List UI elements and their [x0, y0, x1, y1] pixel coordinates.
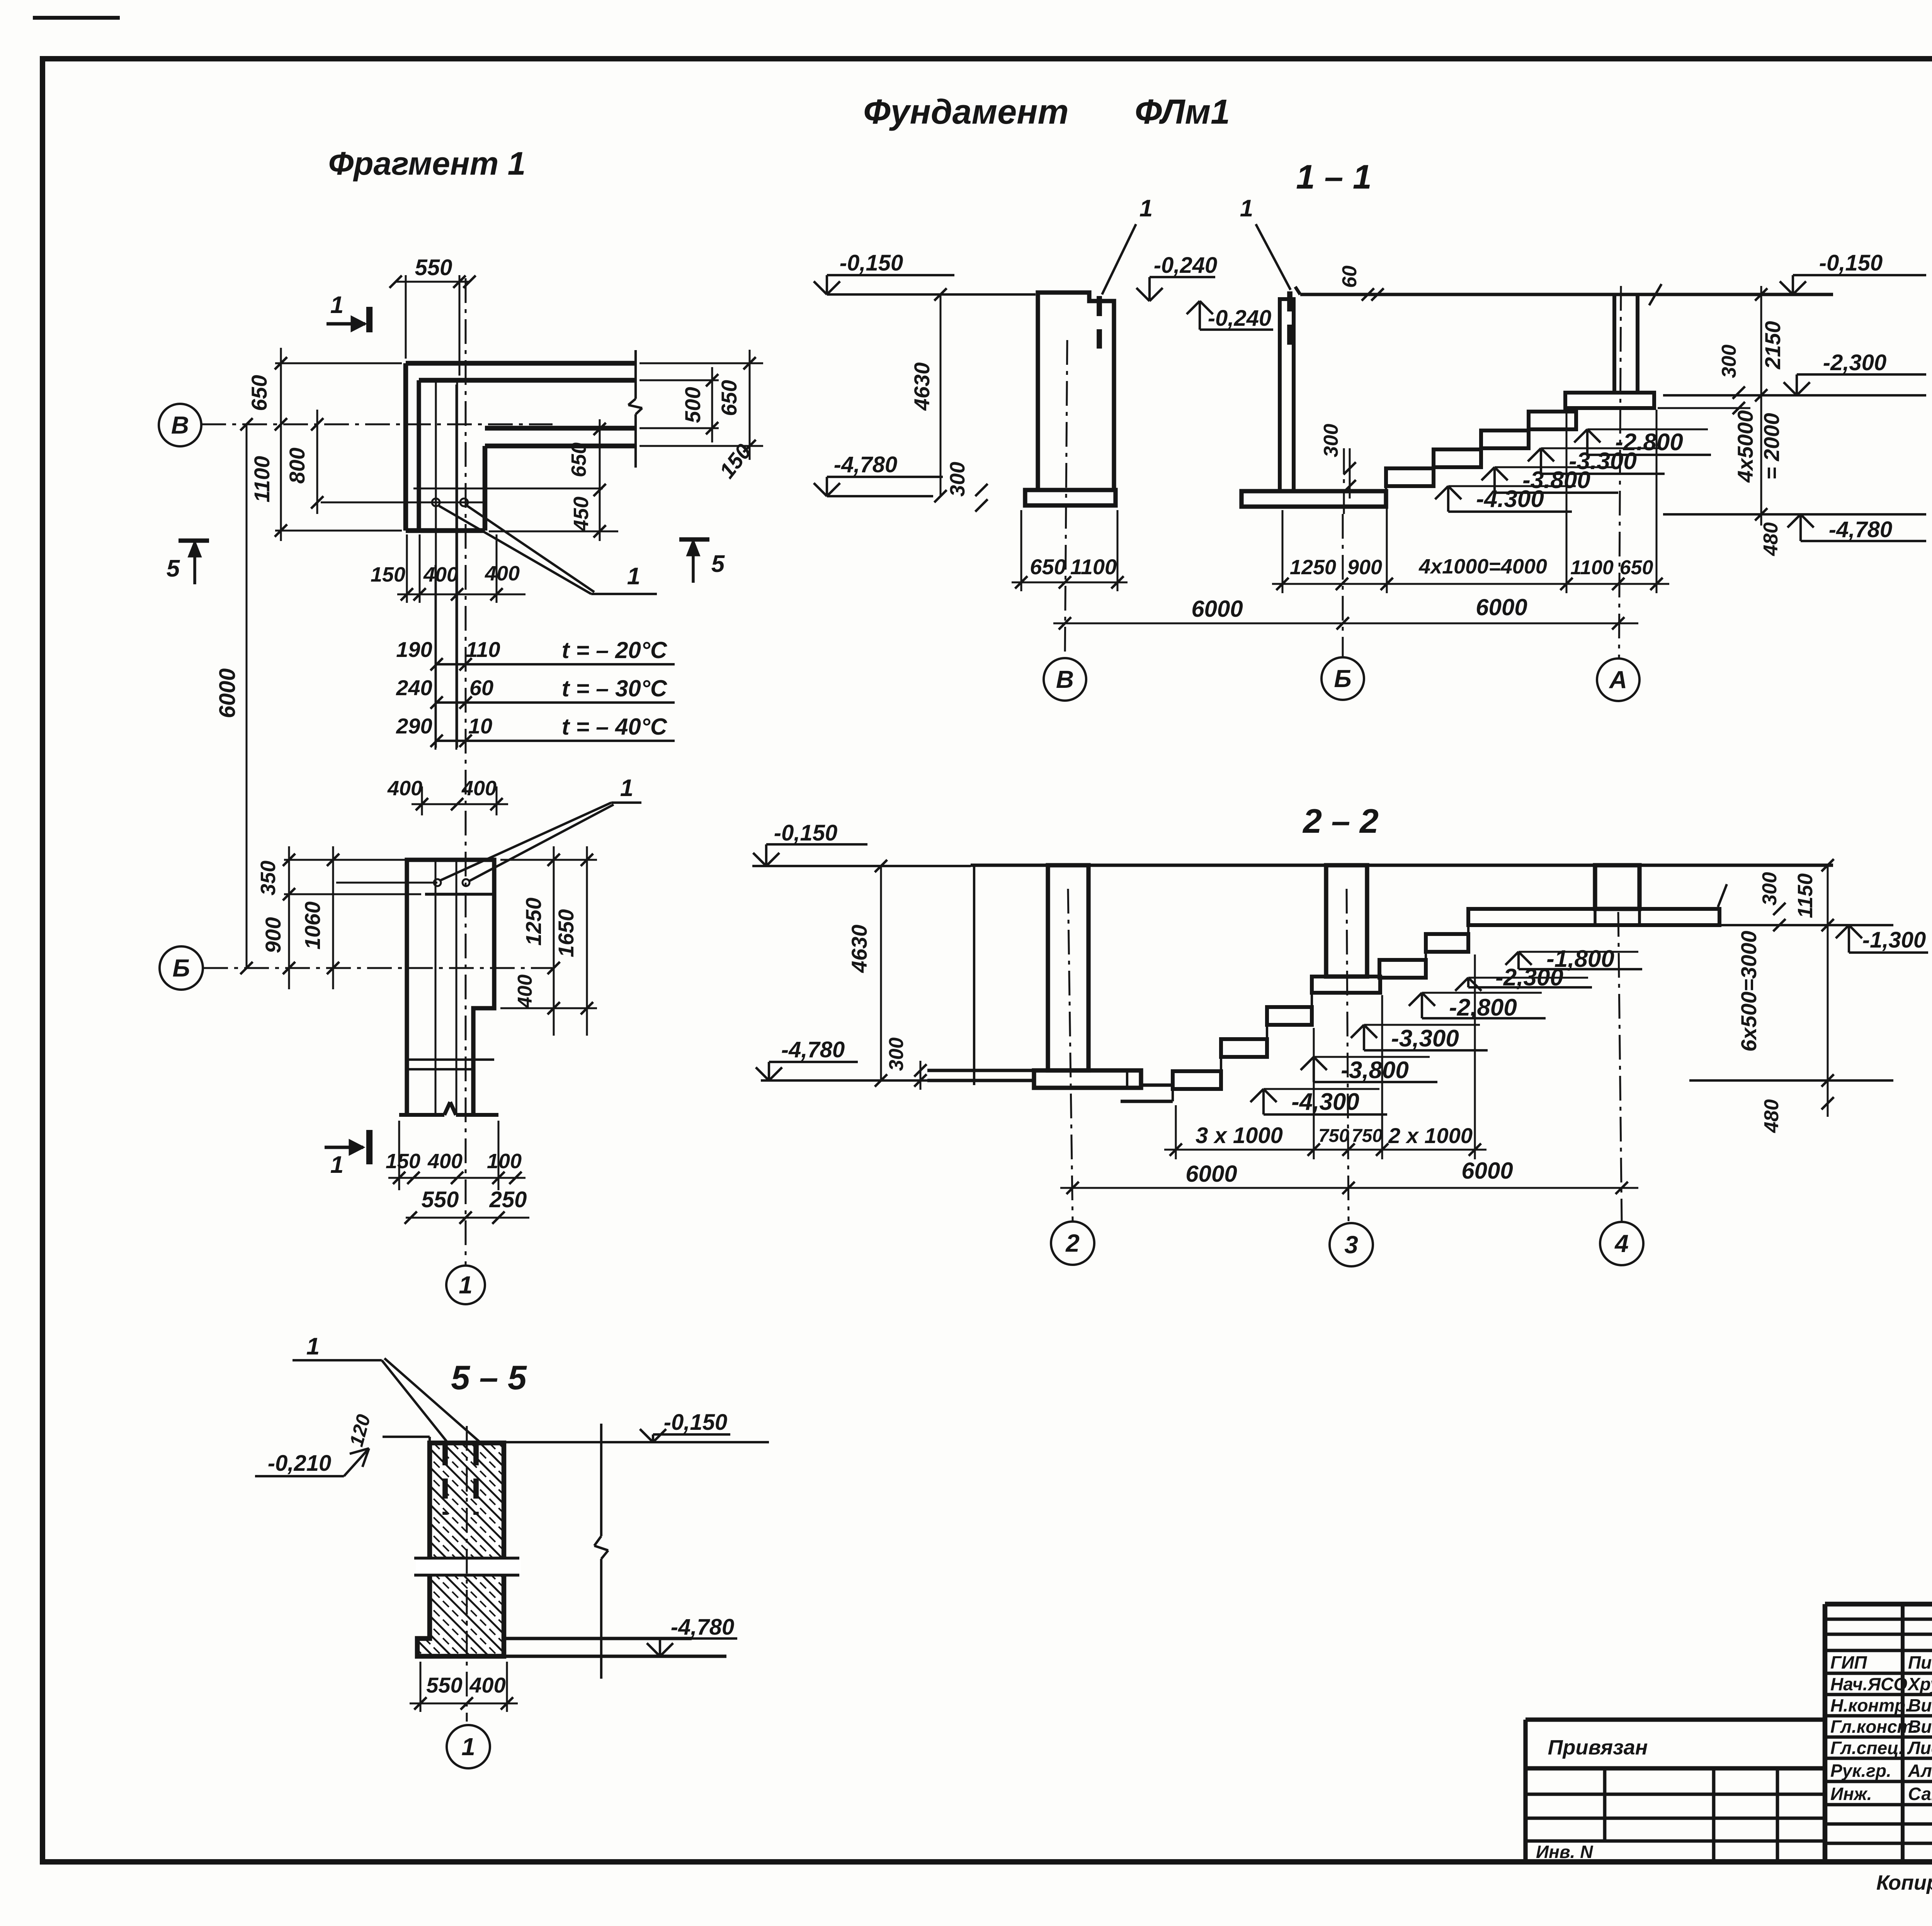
plan dim 400/400 above lower block [421, 786, 423, 815]
personnel table columns [1901, 1604, 1905, 1862]
svg-text:300: 300 [1759, 872, 1781, 906]
svg-text:650: 650 [1030, 555, 1066, 579]
2-2 level -0,150 left [753, 853, 766, 866]
plan inner thin verticals [435, 383, 437, 748]
svg-text:-0,240: -0,240 [1208, 306, 1271, 331]
svg-text:350: 350 [257, 861, 280, 895]
personnel table rows [1825, 1618, 1932, 1621]
5-5 joint band [416, 1559, 521, 1574]
plan right dim 650 [639, 362, 763, 364]
svg-text:400: 400 [461, 777, 497, 800]
svg-text:Н.контр.: Н.контр. [1830, 1695, 1910, 1715]
svg-text:400: 400 [427, 1150, 463, 1173]
1-1 ground line right part [1300, 293, 1833, 296]
plan upper wall: outer top edge [406, 361, 636, 366]
2-2 level -1,300 right [1836, 925, 1849, 938]
svg-text:-4,300: -4,300 [1291, 1089, 1359, 1115]
svg-text:t = – 20°С: t = – 20°С [562, 637, 668, 663]
2-2 floor slab left of wall [927, 1069, 1034, 1072]
left annex box [1526, 1717, 1825, 1722]
1-1 axis А centerline [1619, 286, 1621, 658]
5-5 dashed inserts [442, 1445, 448, 1515]
1-1 axis В centerline [1065, 340, 1067, 658]
svg-text:-1,800: -1,800 [1546, 946, 1614, 972]
svg-text:6000: 6000 [1191, 596, 1243, 622]
svg-text:1250: 1250 [521, 898, 546, 946]
temperature depth table line t=-20 [437, 663, 675, 665]
plan bottom dim 550/250 [406, 1217, 529, 1219]
plan: grid line Б dash-dot [203, 967, 553, 969]
2-2 dim 4630 left [880, 866, 882, 1080]
2-2 bottom dim chain [1175, 1105, 1177, 1159]
svg-text:1: 1 [627, 563, 640, 590]
svg-text:t = – 30°С: t = – 30°С [562, 675, 668, 701]
svg-text:1: 1 [459, 1271, 473, 1299]
1-1 level -2,300 right [1784, 382, 1797, 395]
svg-text:-0,240: -0,240 [1154, 253, 1217, 278]
1-1 grid bubble В [1044, 658, 1086, 701]
5-5 grid bubble 1 [447, 1725, 490, 1768]
svg-text:500: 500 [680, 387, 705, 423]
2-2 step level marks [1250, 1089, 1264, 1102]
1-1 step treads [1386, 468, 1434, 486]
svg-text:1060: 1060 [300, 902, 325, 950]
svg-text:Рук.гр.: Рук.гр. [1830, 1761, 1891, 1781]
1-1 dim 300 right [1733, 386, 1745, 399]
svg-text:1150: 1150 [1794, 873, 1817, 918]
svg-text:-4,780: -4,780 [781, 1037, 845, 1062]
plan dim 350/900 chain [284, 859, 408, 861]
svg-text:5: 5 [167, 555, 180, 582]
svg-text:4630: 4630 [910, 362, 934, 411]
svg-text:Фрагмент 1: Фрагмент 1 [328, 145, 526, 182]
svg-text:= 2000: = 2000 [1759, 413, 1784, 480]
svg-text:Гл.конст.: Гл.конст. [1830, 1717, 1918, 1737]
1-1 wall at axis Б [1280, 299, 1294, 491]
1-1 bottom slab [1242, 491, 1386, 507]
plan lower block rebar dots [434, 879, 441, 886]
svg-text:ГИП: ГИП [1830, 1652, 1867, 1672]
1-1 footing at В [1025, 490, 1116, 505]
svg-text:550: 550 [415, 255, 452, 280]
1-1 dashed insert element at В [1097, 296, 1102, 349]
svg-text:Нач.ЯСО: Нач.ЯСО [1830, 1674, 1907, 1694]
svg-text:400: 400 [469, 1673, 505, 1697]
plan wall break extension with zigzag [634, 350, 637, 399]
svg-text:110: 110 [466, 637, 500, 662]
svg-text:290: 290 [396, 714, 432, 738]
plan left dim 800 [316, 410, 318, 514]
1-1 dim 300 left [975, 484, 988, 496]
temperature depth table line t=-40 [437, 740, 675, 742]
2-2 axis 3 centerline [1347, 889, 1349, 1221]
svg-text:5 – 5: 5 – 5 [451, 1358, 527, 1397]
1-1 landing slab at -2,300 [1565, 393, 1654, 408]
5-5 floor slab right [504, 1637, 692, 1640]
temperature depth table line t=-30 [437, 701, 675, 704]
leader 1 from plan dots [439, 506, 591, 594]
svg-text:650: 650 [567, 442, 590, 477]
svg-text:-3,300: -3,300 [1391, 1025, 1459, 1052]
svg-text:Сапрошина: Сапрошина [1908, 1784, 1932, 1804]
svg-text:Хрупало: Хрупало [1907, 1674, 1932, 1694]
section cut 1 upper [327, 322, 365, 326]
1-1 dim 6000/6000 [1053, 623, 1638, 624]
5-5 wall hatched [417, 1443, 504, 1656]
1-1 grid bubble Б [1321, 657, 1364, 700]
svg-text:1: 1 [306, 1333, 320, 1360]
svg-text:Привязан: Привязан [1548, 1736, 1648, 1759]
1-1 level -0,150 left [814, 281, 827, 294]
svg-text:1: 1 [330, 1152, 344, 1178]
svg-text:190: 190 [396, 637, 432, 662]
1-1 step level marks [1435, 486, 1448, 499]
svg-text:А: А [1609, 666, 1627, 694]
svg-text:-2,800: -2,800 [1449, 994, 1517, 1021]
plan right dim 500 [639, 379, 719, 381]
svg-text:Инв. N: Инв. N [1536, 1842, 1593, 1862]
svg-text:Винклер: Винклер [1908, 1717, 1932, 1737]
1-1 ground break slash [1649, 284, 1662, 305]
2-2 floor right of footing [1141, 1084, 1173, 1087]
plan dim 1060 chain [332, 846, 334, 989]
svg-text:150: 150 [371, 563, 405, 586]
svg-text:240: 240 [396, 675, 432, 700]
svg-text:300: 300 [1320, 424, 1342, 458]
svg-text:800: 800 [285, 447, 309, 483]
svg-text:-0,150: -0,150 [774, 820, 837, 846]
section cut 5 right [679, 537, 709, 541]
svg-text:В: В [171, 411, 189, 439]
svg-text:550: 550 [422, 1187, 459, 1212]
plan dim 650/450 inner chain [489, 531, 618, 533]
svg-text:-4,780: -4,780 [671, 1615, 734, 1640]
svg-text:100: 100 [487, 1150, 522, 1173]
svg-text:1: 1 [330, 292, 344, 318]
1-1 bottom dim chain Б-А [1282, 510, 1284, 593]
1-1 dashed insert at Б [1287, 291, 1293, 347]
fold mark top-left [33, 16, 120, 20]
svg-text:Пивторак: Пивторак [1908, 1652, 1932, 1672]
svg-text:1650: 1650 [554, 909, 578, 958]
5-5 level -4,780 [647, 1643, 660, 1656]
grid bubble 1 (plan bottom) [446, 1266, 485, 1304]
svg-text:300: 300 [946, 462, 969, 497]
svg-text:2 – 2: 2 – 2 [1302, 802, 1379, 840]
svg-text:480: 480 [1760, 1099, 1783, 1133]
plan verticals continuing below wall [435, 565, 437, 750]
plan lower block inner verticals [435, 860, 437, 1115]
1-1 level -0,240 at Б [1187, 301, 1200, 314]
1-1 level -4,780 left [814, 483, 827, 496]
1-1 dim 60 [1362, 288, 1374, 301]
leader 1 to lower block dots [440, 803, 611, 880]
2-2 left structure edge [973, 865, 975, 1085]
svg-text:-0,150: -0,150 [840, 250, 903, 276]
svg-text:Гл.спец.: Гл.спец. [1830, 1738, 1904, 1758]
svg-text:2150: 2150 [1760, 321, 1785, 370]
plan dim 1250/400 chain [500, 859, 597, 861]
2-2 grid bubble 2 [1051, 1222, 1094, 1265]
svg-text:750: 750 [1318, 1126, 1349, 1146]
plan left dim chain 650/1100 [275, 362, 402, 364]
svg-text:-4,780: -4,780 [834, 452, 897, 477]
2-2 grid bubble 3 [1330, 1223, 1373, 1266]
1-1 pier at axis А [1612, 294, 1616, 393]
2-2 pier at axis 4 [1595, 865, 1639, 909]
2-2 right dim chain [1827, 865, 1829, 1117]
5-5 extension line with break [600, 1424, 602, 1536]
1-1 grid bubble А [1597, 658, 1639, 701]
1-1 step risers [1385, 486, 1387, 491]
plan dim 6000 left [246, 424, 248, 968]
5-5 axis centerline [466, 1426, 468, 1722]
2-2 break tick on ground [1718, 884, 1727, 907]
svg-text:6000: 6000 [1476, 594, 1527, 620]
plan wall bottom edge [406, 528, 485, 533]
plan lower block joint lines [407, 1058, 494, 1061]
plan upper wall: left outer edge [403, 363, 408, 531]
dim 550 top of plan [405, 275, 407, 359]
svg-text:Копировал: Копировал [1876, 1871, 1932, 1894]
2-2 footing at axis 2 [1034, 1070, 1141, 1088]
svg-text:6000: 6000 [1185, 1161, 1237, 1187]
svg-text:Инж.: Инж. [1830, 1784, 1872, 1804]
plan dim 150/400/400 below upper wall [406, 534, 408, 603]
1-1 level -0,240 at В [1136, 288, 1150, 301]
plan lower block inner line 350 [425, 893, 494, 896]
svg-text:10: 10 [468, 714, 492, 738]
2-2 dim 6000/6000 [1060, 1187, 1638, 1189]
2-2 ground line [971, 864, 1833, 867]
2-2 dim 300 right top [1731, 924, 1793, 926]
2-2 landing slab [1468, 909, 1719, 925]
5-5 level -0,150 [640, 1429, 653, 1442]
svg-text:Фундамент: Фундамент [863, 93, 1068, 131]
2-2 floor line right [1689, 1079, 1893, 1082]
plan wall right edge [483, 446, 488, 531]
svg-text:650: 650 [1620, 556, 1653, 579]
plan upper wall: inner top edge [419, 378, 636, 383]
plan: grid line В dash-dot [201, 424, 553, 425]
5-5 dim 550/400 [420, 1662, 422, 1712]
svg-text:6x500=3000: 6x500=3000 [1736, 931, 1761, 1051]
grid bubble Б [160, 946, 203, 990]
svg-text:300: 300 [1718, 345, 1740, 378]
title block outer [1825, 1602, 1932, 1607]
svg-text:Б: Б [172, 954, 190, 982]
svg-text:1: 1 [1139, 195, 1153, 222]
plan line 450-level [413, 488, 603, 490]
svg-text:1 – 1: 1 – 1 [1296, 158, 1372, 196]
svg-text:3 x 1000: 3 x 1000 [1196, 1123, 1283, 1148]
plan lower block outline [407, 860, 494, 1115]
svg-text:-0,150: -0,150 [664, 1410, 727, 1435]
svg-text:2: 2 [1065, 1229, 1080, 1257]
svg-text:3: 3 [1344, 1231, 1358, 1259]
svg-text:650: 650 [717, 380, 741, 416]
svg-text:Лисичкин: Лисичкин [1907, 1738, 1932, 1758]
plan lower-right wall strip [485, 426, 636, 431]
svg-text:400: 400 [485, 562, 520, 585]
1-1 wall at axis В [1038, 293, 1114, 490]
svg-text:400: 400 [514, 975, 536, 1009]
svg-text:4x5000: 4x5000 [1733, 410, 1757, 483]
section cut 5 left [179, 538, 209, 543]
svg-text:400: 400 [423, 563, 458, 586]
svg-text:60: 60 [1338, 265, 1361, 288]
svg-text:750: 750 [1352, 1126, 1383, 1146]
svg-text:-0,150: -0,150 [1819, 250, 1883, 276]
svg-text:6000: 6000 [215, 668, 240, 718]
plan upper wall: left inner edge [417, 380, 421, 531]
svg-text:-2.800: -2.800 [1615, 429, 1683, 456]
svg-text:1100: 1100 [1570, 556, 1614, 579]
svg-text:2 x 1000: 2 x 1000 [1388, 1123, 1473, 1148]
svg-text:В: В [1056, 665, 1074, 693]
svg-text:550: 550 [426, 1673, 462, 1697]
svg-text:Алехова: Алехова [1908, 1761, 1932, 1781]
svg-text:1100: 1100 [1070, 555, 1117, 579]
1-1 dim 4630 left [940, 294, 942, 496]
1-1 axis Б centerline [1342, 514, 1344, 657]
svg-text:250: 250 [489, 1187, 527, 1212]
2-2 level -4,780 left [756, 1067, 769, 1080]
svg-text:-1,300: -1,300 [1862, 927, 1926, 953]
svg-text:1250: 1250 [1290, 556, 1336, 579]
svg-text:4630: 4630 [847, 925, 871, 973]
svg-text:4x1000=4000: 4x1000=4000 [1418, 555, 1547, 578]
plan: axis 1 centerline [465, 278, 467, 1264]
svg-text:450: 450 [570, 497, 593, 532]
svg-text:-0,210: -0,210 [268, 1451, 331, 1476]
2-2 step risers [1172, 1089, 1174, 1101]
2-2 landing joints [1594, 909, 1597, 925]
plan rebar dots with line [321, 502, 485, 504]
2-2 axis 2 centerline [1068, 889, 1073, 1221]
svg-text:300: 300 [885, 1038, 908, 1071]
svg-text:150: 150 [386, 1150, 420, 1173]
svg-text:-2,300: -2,300 [1823, 350, 1886, 375]
svg-text:60: 60 [469, 675, 493, 700]
1-1 level -0,150 right [1780, 281, 1793, 294]
svg-text:400: 400 [387, 777, 422, 800]
2-2 axis 4 centerline [1618, 912, 1622, 1221]
5-5 level -0,210 [255, 1475, 344, 1477]
svg-text:5: 5 [711, 551, 725, 577]
svg-text:-4,780: -4,780 [1829, 517, 1892, 542]
svg-text:1: 1 [620, 775, 633, 801]
svg-text:1: 1 [461, 1733, 475, 1761]
grid bubble В [159, 404, 201, 446]
plan lower block bottom break [399, 1113, 444, 1117]
svg-text:6000: 6000 [1461, 1158, 1513, 1184]
plan bottom dim 150/400/100 [398, 1121, 400, 1190]
svg-text:Б: Б [1334, 665, 1351, 692]
svg-text:1100: 1100 [250, 456, 274, 502]
2-2 grid bubble 4 [1600, 1222, 1643, 1265]
2-2 wall at axis 2 [1048, 865, 1088, 1070]
svg-text:t = – 40°С: t = – 40°С [562, 714, 668, 740]
svg-text:ФЛм1: ФЛм1 [1135, 93, 1230, 131]
2-2 wall at axis 3 [1326, 865, 1367, 977]
1-1 level -4,780 right [1787, 514, 1801, 527]
1-1 dim 300 at steps [1349, 448, 1351, 499]
svg-text:900: 900 [261, 917, 285, 953]
svg-text:-3,800: -3,800 [1341, 1057, 1409, 1084]
svg-text:480: 480 [1760, 522, 1782, 556]
svg-text:900: 900 [1347, 556, 1382, 579]
1-1 right dim chain 2150/4x500=2000/480 [1760, 286, 1762, 526]
svg-text:1: 1 [1240, 195, 1253, 222]
svg-text:Винклер: Винклер [1908, 1695, 1932, 1715]
2-2 line under landing to right [1719, 924, 1893, 926]
1-1 dim 650/1100 below В [1020, 510, 1022, 591]
section cut 1 lower [325, 1146, 363, 1149]
2-2 steps treads [1173, 1071, 1221, 1089]
2-2 dim 300 left [920, 1061, 922, 1090]
svg-text:650: 650 [247, 375, 271, 411]
plan dim 1650 chain [586, 846, 588, 1036]
svg-text:4: 4 [1614, 1230, 1629, 1257]
